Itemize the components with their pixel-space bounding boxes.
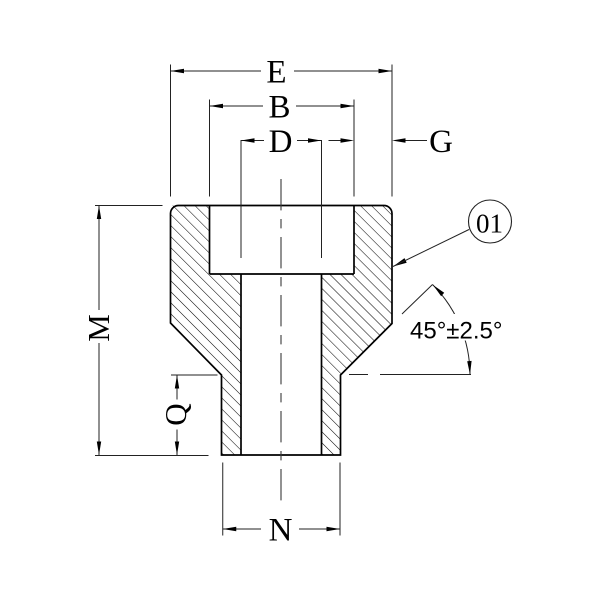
dimension N extension line left: [222, 463, 224, 536]
counterbore right wall edge: [353, 206, 355, 275]
part outer outline: [171, 206, 393, 456]
dimension N extension line right: [339, 463, 341, 536]
angle text background mask: [409, 314, 506, 341]
dimension M extension line top: [95, 205, 163, 207]
dimension E line: [171, 70, 262, 72]
dimension Q line: [176, 375, 178, 400]
dimension Q arrowheads: [175, 375, 179, 389]
svg-text:G: G: [429, 124, 453, 160]
svg-text:M: M: [81, 314, 116, 342]
angle dimension 45 deg extension line (taper line extended): [402, 285, 433, 315]
dimension N line: [223, 528, 261, 530]
dimension M arrowheads: [97, 206, 101, 220]
balloon leader line: [393, 230, 469, 267]
svg-text:45°±2.5°: 45°±2.5°: [410, 318, 502, 345]
svg-text:01: 01: [476, 209, 503, 239]
dimension D extension line left: [240, 140, 242, 258]
dimension G left arrow (outside): [329, 140, 342, 142]
dimension D line: [241, 140, 264, 142]
svg-text:D: D: [269, 124, 293, 160]
dimension Q extension line top: [171, 374, 218, 376]
dimension B extension line right (shared with G): [353, 100, 355, 197]
angle dimension horizontal extension line: [349, 374, 368, 376]
dimension D arrowheads: [241, 138, 255, 142]
dimension N arrowheads: [223, 527, 237, 531]
dimension D extension line right: [321, 140, 323, 258]
balloon circle 01: [469, 200, 512, 243]
svg-text:E: E: [266, 54, 286, 90]
bore right edge: [321, 274, 323, 455]
vertical centerline: [280, 179, 282, 506]
dimension E arrowheads: [171, 69, 185, 73]
balloon leader arrow: [393, 258, 407, 266]
dimension B extension line left: [209, 100, 211, 197]
hatched left wall section: [171, 206, 242, 456]
angle dimension arc: [433, 285, 471, 375]
counterbore left wall edge: [209, 206, 211, 275]
angle arc arrowhead bottom: [467, 361, 471, 375]
bore left edge: [240, 274, 242, 455]
dimension M line: [98, 206, 100, 311]
dimension E extension line left: [170, 65, 172, 197]
svg-text:Q: Q: [158, 403, 193, 425]
dimension B arrowheads: [210, 104, 224, 108]
dimension G right arrow (outside): [405, 140, 427, 142]
dimension E extension line right: [391, 65, 393, 197]
hatched right wall section: [322, 206, 393, 456]
svg-text:B: B: [268, 89, 290, 125]
dimension B line: [210, 105, 264, 107]
angle arc arrowhead top: [433, 285, 444, 296]
svg-text:N: N: [269, 512, 293, 548]
dimension M extension line bottom (shared with Q): [95, 455, 209, 457]
counterbore bottom shelf line: [210, 273, 355, 275]
